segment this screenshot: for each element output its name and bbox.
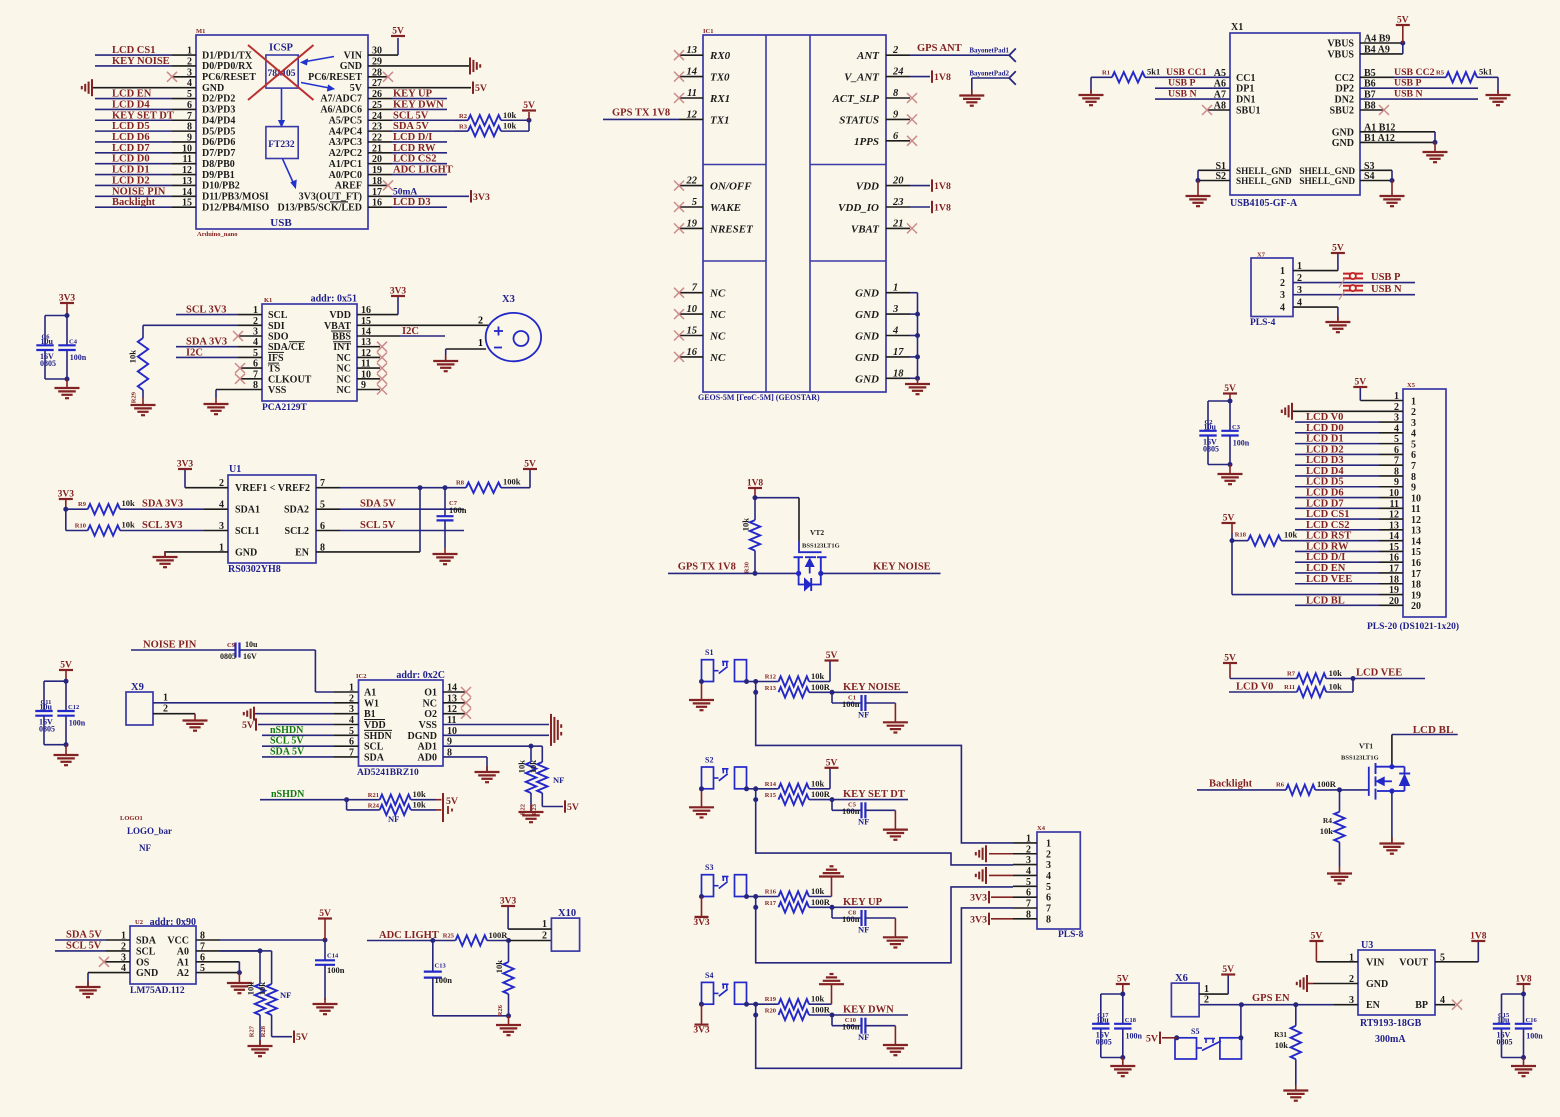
power 1V8 at R30: [747, 479, 764, 501]
svg-text:3: 3: [1411, 418, 1416, 429]
svg-text:GPS ANT: GPS ANT: [917, 43, 962, 54]
net label LCD RST: [1281, 531, 1403, 542]
svg-text:3V3: 3V3: [970, 914, 987, 925]
resistor R19 10k: [756, 994, 825, 1010]
ground at R1: [1079, 77, 1104, 105]
svg-text:NC: NC: [337, 364, 351, 375]
svg-text:SHDN: SHDN: [364, 731, 393, 742]
svg-text:SCL: SCL: [364, 742, 384, 753]
svg-text:1: 1: [1411, 396, 1416, 407]
svg-text:GND: GND: [340, 61, 362, 72]
svg-text:D13/PB5/SCK/LED: D13/PB5/SCK/LED: [278, 202, 362, 213]
power 3V3 at X4 pin6: [970, 891, 1013, 904]
svg-text:10k: 10k: [1284, 530, 1298, 540]
svg-text:0805: 0805: [39, 725, 55, 734]
svg-text:NC: NC: [337, 353, 351, 364]
net label LCD D3: [368, 197, 447, 208]
svg-text:RX1: RX1: [709, 93, 730, 105]
net label KEY UP: [832, 897, 908, 908]
svg-text:V_ANT: V_ANT: [844, 72, 880, 84]
pin CLKOUT no-connect: [235, 374, 262, 384]
wire: [744, 894, 758, 910]
resistor R31 10k: [1274, 1005, 1301, 1085]
ground at R4: [1327, 867, 1352, 884]
net label KEY UP: [368, 89, 447, 100]
svg-text:O2: O2: [424, 709, 437, 720]
resistor R22 10k NF: [517, 746, 537, 815]
net label LCD CS1: [95, 45, 196, 56]
svg-text:VCC: VCC: [167, 936, 189, 947]
svg-text:A1/PC1: A1/PC1: [329, 159, 362, 170]
net label LCD D1: [95, 165, 196, 176]
net label SDA 5V (U2): [55, 930, 130, 941]
svg-text:2: 2: [1280, 278, 1285, 289]
svg-text:SDA: SDA: [136, 936, 157, 947]
ground at AD0 IC2: [443, 757, 500, 782]
net label KEY NOISE (VT2): [821, 562, 941, 574]
svg-text:10k: 10k: [811, 994, 825, 1004]
resistor R5 5k1: [1436, 66, 1498, 82]
svg-text:10k: 10k: [257, 982, 267, 996]
pins left IC1: [674, 45, 754, 364]
svg-text:C3: C3: [1232, 424, 1241, 431]
svg-text:LOGO_bar: LOGO_bar: [127, 826, 172, 836]
resistor R23 10k NF: [528, 746, 563, 815]
net label USB CC2: [1360, 67, 1446, 78]
net label LCD D2: [1295, 444, 1403, 455]
power 5V at S5: [1146, 1032, 1177, 1045]
connector X5 PLS-20 DS1021-1x20: [1367, 382, 1459, 632]
net label LCD CS2: [368, 154, 447, 165]
svg-text:6: 6: [1046, 893, 1051, 904]
svg-text:R31: R31: [1274, 1030, 1287, 1039]
svg-text:U1: U1: [229, 464, 241, 475]
svg-text:SBU2: SBU2: [1330, 106, 1354, 117]
svg-text:R20: R20: [765, 1008, 776, 1015]
svg-text:5V: 5V: [1222, 965, 1234, 975]
svg-text:D6/PD6: D6/PD6: [202, 137, 235, 148]
net jumper USB N: [1339, 285, 1363, 300]
svg-text:NF: NF: [139, 843, 151, 853]
svg-text:10k: 10k: [128, 350, 138, 364]
net label USB P (right): [1360, 78, 1478, 89]
power 3V3 at X4 pin8: [970, 913, 1013, 926]
capacitor pair C17 C18 5V: [1092, 975, 1142, 1061]
svg-text:DP1: DP1: [1236, 84, 1254, 95]
svg-text:SDO: SDO: [268, 332, 289, 343]
wire GND pin4 M1: [92, 87, 196, 89]
capacitor pair C2 C3 5V: [1199, 384, 1249, 467]
arrow 78M05 to 5V: [301, 83, 334, 91]
power 5V at pin30 M1: [368, 27, 405, 56]
svg-text:3V3: 3V3: [693, 1026, 710, 1036]
svg-text:KEY NOISE: KEY NOISE: [843, 682, 901, 693]
connector X9: [126, 682, 168, 725]
ground at C14: [313, 998, 338, 1014]
resistor R6 100R: [1276, 779, 1369, 795]
svg-text:D3/PD3: D3/PD3: [202, 105, 235, 116]
svg-text:10k: 10k: [1329, 668, 1343, 678]
resistor R15 100R: [765, 789, 835, 805]
net jumper USB P: [1339, 273, 1363, 288]
svg-text:10u: 10u: [1497, 1016, 1510, 1025]
svg-text:A0/PC0: A0/PC0: [329, 170, 362, 181]
svg-text:100R: 100R: [489, 930, 509, 940]
svg-text:R1: R1: [1102, 69, 1110, 76]
svg-text:VBAT: VBAT: [324, 321, 351, 332]
IC IC1 GEOS-5M GPS module: [698, 28, 886, 402]
svg-text:LCD V0: LCD V0: [1236, 682, 1273, 693]
capacitor C13 100n: [424, 941, 509, 1016]
net label KEY NOISE: [95, 56, 196, 67]
svg-text:NF: NF: [280, 990, 291, 1000]
svg-text:VREF1 < VREF2: VREF1 < VREF2: [235, 483, 310, 494]
svg-text:10k: 10k: [122, 498, 136, 508]
capacitor pair C11 C12 5V rail: [35, 661, 85, 748]
net label LCD D6: [95, 132, 196, 143]
ground at battery X3: [433, 338, 486, 371]
wire GND bus IC1: [910, 293, 920, 381]
net label LCD V0: [1295, 412, 1403, 423]
power 5V at R8: [523, 460, 537, 488]
svg-text:CC2: CC2: [1335, 73, 1354, 84]
svg-text:C12: C12: [68, 704, 79, 711]
svg-text:BBS: BBS: [332, 332, 351, 343]
svg-text:AD0: AD0: [418, 752, 437, 763]
ground (up) at R19: [809, 974, 844, 1004]
svg-text:SCL 5V: SCL 5V: [270, 736, 304, 747]
net label LCD D5: [1295, 477, 1403, 488]
svg-text:VDD: VDD: [329, 310, 351, 321]
svg-text:VDD: VDD: [856, 181, 879, 193]
svg-text:KEY SET DT: KEY SET DT: [843, 789, 905, 800]
svg-text:RT9193-18GB: RT9193-18GB: [1360, 1018, 1422, 1029]
svg-text:R21: R21: [368, 792, 379, 799]
svg-text:NC: NC: [709, 288, 726, 300]
power 1V8 at V_ANT: [910, 70, 951, 83]
ground at B1 IC2: [244, 707, 359, 721]
svg-text:6: 6: [1411, 450, 1416, 461]
svg-text:100n: 100n: [1526, 1032, 1543, 1041]
wire: [744, 1002, 758, 1018]
switch S5: [1174, 1027, 1243, 1059]
net label LCD D/I: [1295, 552, 1403, 563]
svg-text:Backlight: Backlight: [1209, 779, 1253, 790]
svg-text:SBU1: SBU1: [1236, 106, 1260, 117]
svg-text:A2: A2: [177, 968, 189, 979]
svg-text:R8: R8: [456, 480, 465, 487]
net label LCD D3: [1295, 455, 1403, 466]
svg-text:10k: 10k: [528, 760, 538, 774]
svg-text:NF: NF: [858, 817, 869, 827]
svg-text:10k: 10k: [413, 789, 427, 799]
switch S4: [702, 971, 747, 1004]
svg-text:GPS EN: GPS EN: [1252, 993, 1290, 1004]
svg-text:SDA 5V: SDA 5V: [270, 746, 305, 757]
net label LCD D0: [95, 154, 196, 165]
svg-text:C9: C9: [227, 642, 236, 649]
svg-text:R24: R24: [368, 803, 380, 810]
svg-text:PCA2129T: PCA2129T: [262, 403, 308, 413]
net label USB N (left): [1155, 89, 1230, 100]
svg-text:R28: R28: [260, 1025, 267, 1037]
net label SCL 3V3 (U1): [138, 520, 228, 531]
net label NOISE PIN: [131, 640, 228, 651]
svg-text:GND: GND: [1332, 138, 1354, 149]
svg-text:C13: C13: [435, 963, 447, 970]
resistor R12 10k: [756, 671, 825, 687]
svg-text:KEY NOISE: KEY NOISE: [873, 562, 931, 573]
svg-text:USB N: USB N: [1394, 89, 1423, 100]
net label LCD D7: [1295, 498, 1403, 509]
svg-text:SHELL_GND: SHELL_GND: [1236, 166, 1292, 176]
svg-text:100R: 100R: [811, 1005, 831, 1015]
svg-text:VIN: VIN: [344, 50, 363, 61]
ground at R29: [131, 398, 156, 415]
svg-text:3V3: 3V3: [970, 893, 987, 904]
resistor R16 10k: [756, 886, 825, 902]
svg-text:4: 4: [1411, 429, 1416, 440]
resistor R1 5k1: [1091, 66, 1163, 82]
svg-text:R13: R13: [765, 685, 777, 692]
svg-text:VT1: VT1: [1359, 742, 1373, 751]
svg-text:100n: 100n: [69, 719, 86, 728]
capacitor pair C6 C4 3V3: [36, 294, 86, 382]
ground at C7: [433, 548, 458, 564]
power 1V8 at VDD_IO: [910, 201, 951, 214]
svg-text:R4: R4: [1323, 816, 1332, 825]
svg-text:100n: 100n: [435, 975, 453, 985]
svg-text:1: 1: [1046, 838, 1051, 849]
svg-text:R14: R14: [765, 781, 777, 788]
svg-text:100n: 100n: [1126, 1032, 1143, 1041]
svg-text:BayonetPad1: BayonetPad1: [969, 47, 1009, 55]
svg-text:X7: X7: [1257, 252, 1266, 259]
power 3V3 at VREF1: [177, 460, 228, 488]
net label Backlight (VT1): [1197, 779, 1286, 790]
net label LCD D1: [1295, 434, 1403, 445]
svg-text:10k: 10k: [503, 110, 517, 120]
svg-text:SDA: SDA: [364, 752, 385, 763]
svg-text:DGND: DGND: [408, 731, 437, 742]
svg-text:PLS-20 (DS1021-1x20): PLS-20 (DS1021-1x20): [1367, 621, 1459, 632]
wire S4 to X4 pin7: [756, 908, 1013, 1068]
svg-text:GND: GND: [1366, 979, 1388, 990]
svg-text:FT232: FT232: [268, 140, 295, 150]
svg-text:2: 2: [1204, 995, 1209, 1006]
svg-text:SHELL_GND: SHELL_GND: [1236, 176, 1292, 186]
svg-text:15: 15: [1411, 547, 1421, 558]
svg-text:USB P: USB P: [1371, 272, 1401, 283]
svg-text:A1: A1: [177, 957, 189, 968]
power 5V at X6 pin1: [1199, 965, 1235, 994]
svg-text:100n: 100n: [842, 1022, 860, 1032]
svg-text:10k: 10k: [503, 121, 517, 131]
transistor VT2 BSS123LT1G: [755, 498, 840, 591]
net label SDA 5V (U1): [316, 499, 464, 510]
svg-text:1V8: 1V8: [934, 181, 951, 192]
power 3V3 under S4: [693, 1002, 710, 1036]
svg-text:VSS: VSS: [268, 385, 287, 396]
ground at VT1 source: [1379, 791, 1404, 854]
IC IC2 AD5241BRZ10 digital pot addr 0x2C: [356, 670, 445, 778]
svg-text:10u: 10u: [40, 703, 53, 712]
svg-text:TX0: TX0: [710, 72, 730, 84]
ground at A1/A2: [227, 973, 252, 994]
svg-text:addr: 0x90: addr: 0x90: [150, 917, 196, 928]
pins O1 NC O2 no-connect IC2: [443, 687, 471, 719]
overline mark LED M1: [330, 201, 348, 203]
svg-text:NC: NC: [709, 352, 726, 364]
svg-text:2: 2: [1046, 849, 1051, 860]
ground at R5: [1486, 77, 1511, 105]
net label SDA 3V3 (U1): [138, 499, 228, 510]
net label SDA 5V: [368, 121, 455, 132]
power 5V at VCC U2: [318, 909, 332, 940]
svg-text:DP2: DP2: [1336, 84, 1354, 95]
power 5V at VDD IC2: [242, 718, 358, 731]
svg-text:12: 12: [1411, 515, 1421, 526]
svg-text:5V: 5V: [350, 83, 363, 94]
svg-text:USB N: USB N: [1168, 89, 1197, 100]
net label USB CC1: [1163, 67, 1230, 78]
svg-text:100k: 100k: [503, 477, 521, 487]
svg-text:GND: GND: [855, 331, 879, 343]
svg-text:5V: 5V: [1354, 378, 1366, 388]
svg-text:R23: R23: [531, 803, 538, 815]
svg-text:1V8: 1V8: [1515, 975, 1532, 985]
resistor R4 10k: [1320, 790, 1345, 867]
svg-text:CC1: CC1: [1236, 73, 1255, 84]
net label SCL 3V3: [176, 305, 262, 316]
svg-text:0805: 0805: [1497, 1038, 1513, 1047]
resistor R18 10k: [1232, 530, 1298, 546]
svg-text:D9/PB1: D9/PB1: [202, 170, 235, 181]
svg-text:5V: 5V: [524, 460, 536, 470]
svg-text:1: 1: [349, 683, 354, 694]
svg-text:SDA2: SDA2: [284, 505, 309, 516]
svg-text:3V3: 3V3: [390, 287, 407, 297]
svg-text:S2: S2: [705, 756, 713, 765]
svg-text:5V: 5V: [523, 101, 535, 111]
ground at pin29 M1: [368, 57, 480, 74]
svg-text:D0/PD0/RX: D0/PD0/RX: [202, 61, 253, 72]
svg-text:nSHDN: nSHDN: [270, 725, 304, 736]
svg-text:SDA 5V: SDA 5V: [360, 499, 396, 510]
pin names M1: [182, 46, 382, 214]
svg-text:16V: 16V: [243, 652, 257, 661]
wire X9 pin1 to W1: [153, 702, 359, 704]
wire S2 to X4 pin3: [756, 800, 1013, 865]
svg-text:BayonetPad2: BayonetPad2: [969, 70, 1009, 78]
svg-text:CLKOUT: CLKOUT: [268, 374, 312, 385]
net label GPS ANT: [917, 43, 962, 54]
svg-text:LCD VEE: LCD VEE: [1356, 668, 1402, 679]
svg-text:ACT_SLP: ACT_SLP: [832, 93, 880, 105]
connector X7 PLS-4: [1250, 252, 1293, 329]
svg-text:K1: K1: [264, 297, 272, 304]
svg-text:A1: A1: [364, 688, 376, 699]
wire S3 to X4 pin5: [756, 887, 1013, 963]
svg-text:O1: O1: [424, 688, 437, 699]
svg-text:R27: R27: [249, 1025, 256, 1037]
svg-text:IC1: IC1: [703, 28, 713, 35]
svg-text:TX1: TX1: [710, 114, 730, 126]
svg-text:X4: X4: [1037, 825, 1046, 832]
svg-text:C16: C16: [1526, 1017, 1538, 1024]
svg-text:TS: TS: [268, 364, 281, 375]
svg-text:10k: 10k: [811, 778, 825, 788]
ground at C6/C4: [55, 379, 80, 398]
svg-text:A0: A0: [177, 946, 189, 957]
net 50mA to 3V3 pin17 M1: [368, 187, 490, 203]
label NF at R22/R23: [553, 775, 564, 785]
ground (up) at R16: [809, 866, 844, 896]
ground at R26: [496, 1016, 521, 1035]
power 5V at pin27 M1: [368, 81, 487, 94]
svg-text:AD5241BRZ10: AD5241BRZ10: [357, 768, 419, 778]
svg-text:NF: NF: [553, 775, 564, 785]
svg-text:SCL1: SCL1: [235, 526, 259, 537]
pins right IC1: [832, 45, 910, 385]
resistor R20 100R: [765, 1005, 835, 1021]
ground at C8: [883, 918, 908, 948]
svg-text:S5: S5: [1191, 1027, 1199, 1036]
power 5V at VBUS: [1360, 16, 1410, 54]
svg-text:R19: R19: [765, 996, 777, 1003]
svg-text:VSS: VSS: [419, 720, 438, 731]
svg-text:LOGO1: LOGO1: [120, 815, 143, 822]
svg-text:AREF: AREF: [335, 181, 362, 192]
svg-text:10k: 10k: [494, 960, 504, 974]
svg-text:2: 2: [542, 931, 547, 942]
svg-text:R29: R29: [131, 391, 138, 403]
net label LCD CS2: [1295, 520, 1403, 531]
svg-text:5V: 5V: [826, 651, 838, 661]
svg-text:NOISE PIN: NOISE PIN: [143, 640, 197, 651]
BayonetPad1: [910, 47, 1016, 62]
svg-text:R12: R12: [765, 674, 776, 681]
svg-text:10k: 10k: [517, 760, 527, 774]
svg-text:B1: B1: [364, 709, 376, 720]
wire: [744, 679, 758, 695]
net label LCD D4: [95, 99, 196, 110]
svg-text:BSS123LT1G: BSS123LT1G: [802, 543, 840, 550]
pin 3 M1 no-connect: [167, 72, 196, 82]
power 1V8 at VDD: [910, 179, 951, 192]
svg-text:VBUS: VBUS: [1327, 39, 1354, 50]
svg-text:100n: 100n: [842, 914, 860, 924]
net label ADC LIGHT: [367, 930, 439, 943]
svg-text:SCL 3V3: SCL 3V3: [142, 520, 183, 531]
pin OS no-connect: [99, 957, 130, 967]
resistor R21 10k: [347, 789, 442, 805]
svg-text:SCL: SCL: [136, 946, 156, 957]
arrow 78M05 to FT232: [279, 89, 285, 127]
connector X4 PLS-8: [1037, 825, 1084, 940]
svg-text:SDI: SDI: [268, 321, 285, 332]
svg-text:SCL 5V: SCL 5V: [360, 520, 396, 531]
svg-text:D8/PB0: D8/PB0: [202, 159, 235, 170]
net label LCD D7: [95, 143, 196, 154]
svg-text:5V: 5V: [1224, 384, 1236, 394]
svg-text:4: 4: [1280, 303, 1285, 314]
power 5V at R7: [1223, 654, 1297, 679]
ground at C2/C3: [1218, 465, 1243, 485]
ground at C1: [883, 703, 908, 733]
svg-text:5: 5: [1046, 882, 1051, 893]
svg-text:PC6/RESET: PC6/RESET: [202, 72, 256, 83]
